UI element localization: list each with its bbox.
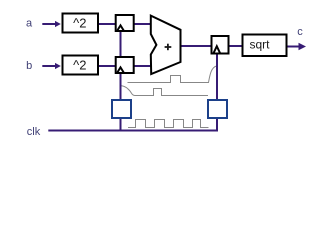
svg-text:b: b <box>26 60 32 72</box>
svg-text:sqrt: sqrt <box>249 38 270 52</box>
svg-text:c: c <box>297 26 303 38</box>
svg-text:^2: ^2 <box>73 16 86 31</box>
svg-text:clk: clk <box>27 126 41 138</box>
svg-text:^2: ^2 <box>73 58 86 73</box>
svg-text:a: a <box>26 18 33 30</box>
